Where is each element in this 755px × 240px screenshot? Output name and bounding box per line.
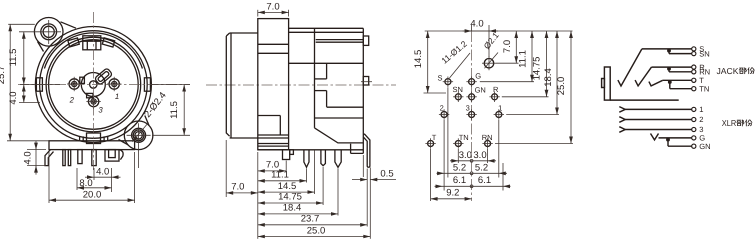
- svg-text:T: T: [432, 133, 437, 142]
- side view: lower notch: [315, 90, 327, 92]
- front view: ear hole bottom-right: [132, 128, 146, 142]
- side view: body outline: [289, 27, 364, 29]
- svg-text:S: S: [437, 74, 442, 83]
- front view: center jack hole: [90, 81, 97, 88]
- schematic: terminal S: [692, 47, 696, 51]
- footprint: pad RN: [485, 141, 491, 147]
- footprint: big hole pad 2.1mm: [484, 59, 493, 68]
- schematic: plug body line: [610, 99, 679, 101]
- svg-text:SN: SN: [699, 49, 710, 58]
- svg-text:2: 2: [699, 115, 703, 124]
- dim 0.5 leg thickness: [352, 179, 367, 181]
- dim 25.0: [258, 236, 371, 238]
- front view: cavity circles: [46, 37, 141, 132]
- footprint dim 18.4: [556, 31, 558, 115]
- footprint dim 6.1 6.1: [435, 185, 511, 187]
- schematic: wire TN with break contact: [670, 88, 692, 90]
- dim 7.0 flange width top: [257, 10, 259, 17]
- svg-text:R: R: [493, 85, 499, 94]
- schematic: terminal G: [692, 136, 696, 140]
- side view: barrel front face: [226, 33, 229, 136]
- svg-text:1: 1: [699, 105, 703, 114]
- front view: rear housing block with solder legs: [49, 141, 135, 150]
- svg-text:GN: GN: [699, 142, 710, 151]
- svg-text:14.75: 14.75: [278, 192, 302, 203]
- front view: jack tip keyway: [94, 68, 112, 85]
- footprint: pad SN: [455, 94, 461, 100]
- dim 11.1: [258, 180, 307, 182]
- front view: latch slot at top: [83, 36, 101, 50]
- schematic: terminal 1: [692, 107, 696, 111]
- front view: solder legs: [63, 150, 65, 166]
- schematic: ring contact lever R: [635, 67, 651, 86]
- side view: flange internal lines: [258, 43, 289, 45]
- front view: hub notch bottom: [87, 93, 93, 97]
- side view: right tabs: [363, 36, 368, 45]
- dim 7.0 to nub: [258, 170, 286, 172]
- side view: barrel top and bottom: [230, 32, 258, 34]
- dim 11.5 ear to centerline: [19, 31, 37, 33]
- svg-text:5.2: 5.2: [475, 163, 488, 174]
- schematic: wire RN with break contact: [669, 71, 692, 73]
- svg-text:11.1: 11.1: [271, 170, 289, 181]
- dim 4.0 bottom legs: [85, 176, 94, 178]
- schematic: terminal SN: [692, 52, 696, 56]
- side view: flange inner step: [258, 115, 281, 117]
- dim 14.5: [258, 191, 315, 193]
- dim 4.0 leg height left: [27, 149, 46, 151]
- schematic: wire G: [659, 137, 692, 139]
- dim 20.0 housing width: [49, 199, 135, 201]
- svg-text:G: G: [475, 72, 481, 81]
- footprint: pad 2: [441, 112, 447, 118]
- svg-text:11.5: 11.5: [8, 49, 19, 67]
- dim 18.4: [258, 213, 338, 215]
- svg-text:RN: RN: [482, 133, 493, 142]
- footprint bottom extension lines: [430, 149, 432, 201]
- schematic: terminal 2: [692, 117, 696, 121]
- svg-text:3.0: 3.0: [473, 150, 486, 161]
- front view: hub notch left: [80, 77, 85, 83]
- front view: flange inner circle: [40, 31, 148, 139]
- svg-text:11.5: 11.5: [169, 101, 180, 119]
- svg-text:TN: TN: [459, 133, 469, 142]
- dim stack extension lines: [257, 152, 259, 239]
- footprint dim 4.0 top: [471, 25, 473, 31]
- dim 4.0 centerline down: [23, 85, 25, 103]
- side view: nose line: [289, 62, 364, 64]
- schematic: ground switch V: [651, 134, 659, 140]
- svg-text:GN: GN: [475, 85, 486, 94]
- footprint dim 9.2: [431, 198, 472, 200]
- svg-text:14.75: 14.75: [532, 57, 543, 81]
- svg-text:4.0: 4.0: [8, 91, 19, 104]
- dim 8.0 bottom legs: [77, 187, 112, 189]
- front view: vertical centerline: [92, 12, 94, 170]
- footprint: pad T: [428, 141, 434, 147]
- front view: hook leg: [120, 150, 124, 160]
- svg-text:0.5: 0.5: [380, 168, 393, 179]
- front view: xlr pin 1: [109, 79, 119, 89]
- side view: tab slot lines: [316, 39, 364, 41]
- footprint: pad S: [445, 79, 451, 85]
- side view: pin B: [321, 150, 326, 166]
- front view: mounting ear bottom-right: [124, 121, 153, 150]
- dim 7.0 barrel depth left: [225, 140, 227, 197]
- footprint dim 14.5 left: [427, 31, 429, 93]
- footprint dim 3.0 3.0: [450, 160, 496, 162]
- svg-text:14.5: 14.5: [278, 181, 297, 192]
- schematic: terminal 3: [692, 127, 696, 131]
- svg-text:18.4: 18.4: [283, 203, 302, 214]
- footprint row extension lines right: [496, 62, 519, 64]
- svg-text:3: 3: [466, 103, 470, 112]
- schematic: wire SN with break contact: [669, 53, 692, 55]
- footprint dim 25.0: [570, 31, 572, 144]
- dim 14.75: [258, 202, 323, 204]
- svg-text:1: 1: [498, 103, 502, 112]
- svg-text:XLR: XLR: [722, 118, 737, 128]
- svg-text:6.1: 6.1: [453, 175, 466, 186]
- dim 23.7: [258, 224, 367, 226]
- side view: long step line: [315, 117, 364, 119]
- svg-text:5.2: 5.2: [453, 163, 466, 174]
- svg-text:7.0: 7.0: [502, 40, 513, 53]
- side view: foot step: [351, 144, 364, 154]
- schematic: terminal R: [692, 65, 696, 69]
- schematic: wire GN with contact dot: [668, 145, 692, 147]
- svg-text:TN: TN: [699, 84, 709, 93]
- front view: mounting ear top-left: [34, 18, 63, 47]
- svg-text:2: 2: [440, 103, 444, 112]
- footprint: pad 1: [496, 112, 502, 118]
- front view: small feet above housing: [79, 136, 81, 141]
- schematic: terminal TN: [692, 87, 696, 91]
- svg-text:4.0: 4.0: [470, 19, 483, 30]
- footprint dim 5.2 5.2: [437, 172, 508, 174]
- footprint: pad R: [492, 94, 498, 100]
- schematic: terminal RN: [692, 70, 696, 74]
- front view: horizontal centerline: [18, 84, 190, 86]
- svg-text:25.7: 25.7: [0, 66, 7, 85]
- front view: keying tabs beside latch: [68, 38, 79, 47]
- svg-text:2: 2: [69, 96, 75, 105]
- front view: bent leg far left: [45, 150, 54, 166]
- side view: nub below flange: [283, 150, 290, 160]
- front view: ear hole top-left: [41, 24, 57, 40]
- svg-text:4.0: 4.0: [96, 166, 109, 177]
- footprint dim 14.75: [546, 31, 548, 97]
- svg-text:6.1: 6.1: [478, 175, 491, 186]
- schematic: terminal GN: [692, 144, 696, 148]
- svg-text:1: 1: [115, 92, 119, 101]
- front view: flange outer circle: [35, 27, 151, 143]
- svg-text:7.0: 7.0: [231, 182, 244, 193]
- side view: upper notch: [315, 78, 327, 80]
- footprint: pad 3: [469, 112, 475, 118]
- schematic: terminal T: [692, 78, 696, 82]
- front view: side tab left: [36, 78, 42, 91]
- svg-text:3: 3: [98, 106, 103, 115]
- footprint dim 11.1: [531, 31, 533, 82]
- svg-text:9.2: 9.2: [446, 187, 459, 198]
- dim 25.7 overall height: [8, 23, 35, 25]
- side view: body internal diagonal: [315, 128, 364, 143]
- front view: xlr pin 3: [88, 96, 98, 106]
- svg-text:11.1: 11.1: [518, 50, 529, 68]
- footprint: top reference line: [425, 30, 573, 32]
- svg-text:JACK: JACK: [717, 66, 739, 76]
- side view: front face vertical: [314, 28, 316, 128]
- schematic: xlr contact 3: [619, 127, 625, 133]
- front view: xlr pin 2: [69, 79, 79, 89]
- footprint dim 7.0: [515, 31, 517, 63]
- svg-text:8.0: 8.0: [79, 178, 92, 189]
- side view: bent leg right: [363, 134, 370, 167]
- front view: top hood arc: [44, 33, 142, 69]
- schematic: sleeve contact lever T: [649, 80, 663, 86]
- footprint: pad GN: [469, 94, 475, 100]
- schematic: tip contact lever S: [618, 49, 642, 86]
- front view: bottom tab: [87, 133, 101, 144]
- svg-text:3.0: 3.0: [459, 150, 472, 161]
- svg-text:14.5: 14.5: [413, 50, 424, 69]
- side view: horizontal centerline: [206, 84, 396, 86]
- svg-text:SN: SN: [452, 85, 462, 94]
- side view: pin A: [304, 150, 309, 168]
- front view: side tab right: [144, 78, 150, 91]
- side view: flange outline: [258, 19, 289, 150]
- footprint: pad TN: [455, 141, 461, 147]
- svg-text:4.0: 4.0: [23, 151, 34, 164]
- side view: barrel rim: [230, 33, 232, 138]
- svg-text:23.7: 23.7: [301, 214, 320, 225]
- svg-text:25.0: 25.0: [307, 225, 326, 236]
- footprint: pad G: [469, 79, 475, 85]
- schematic: jack plug sleeve symbol: [604, 67, 610, 100]
- svg-text:7.0: 7.0: [266, 1, 279, 12]
- svg-text:25.0: 25.0: [556, 77, 567, 96]
- svg-text:18.4: 18.4: [543, 68, 554, 87]
- front view: center hub: [81, 73, 105, 97]
- footprint: vertical centerline dashed: [471, 31, 473, 201]
- dim 11.5 right side: [150, 84, 190, 86]
- svg-text:20.0: 20.0: [83, 189, 102, 200]
- side view: pin C: [335, 150, 341, 168]
- schematic: xlr contact 1: [619, 107, 625, 113]
- front view: wide leg with slot: [105, 150, 119, 162]
- schematic: xlr contact 2: [619, 117, 625, 123]
- side view: body bottom: [258, 149, 364, 151]
